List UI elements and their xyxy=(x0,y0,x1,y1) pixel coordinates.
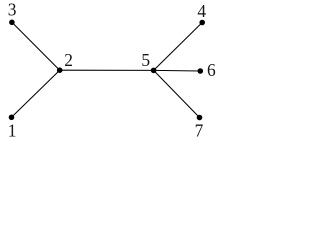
svg-text:5: 5 xyxy=(141,50,150,70)
svg-text:6: 6 xyxy=(207,60,216,80)
svg-text:2: 2 xyxy=(64,50,73,70)
svg-text:3: 3 xyxy=(8,0,17,20)
svg-text:1: 1 xyxy=(8,120,17,140)
svg-text:7: 7 xyxy=(195,121,204,141)
svg-text:4: 4 xyxy=(197,1,206,21)
